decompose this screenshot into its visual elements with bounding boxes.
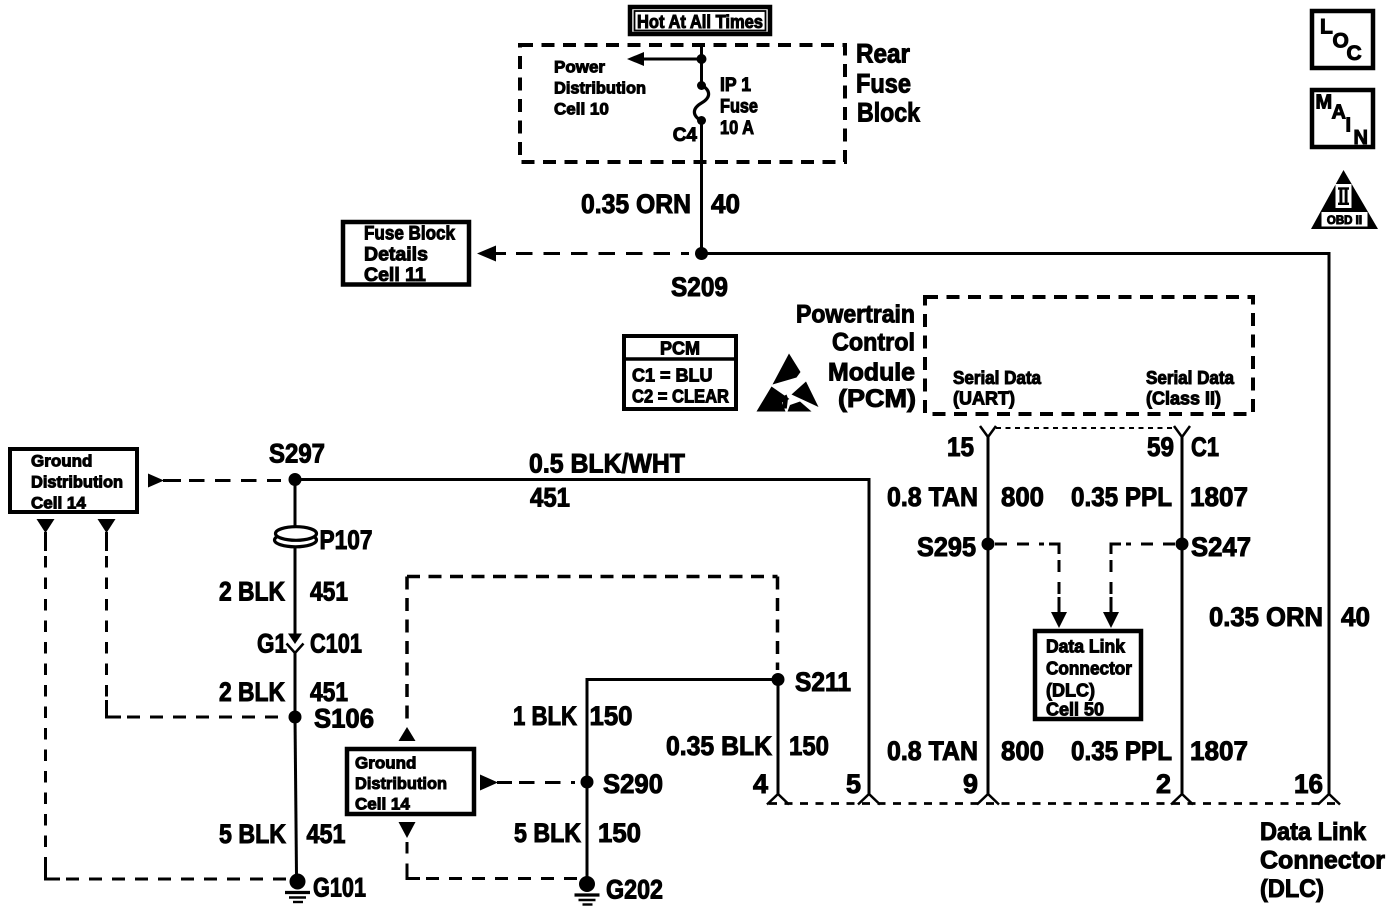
svg-text:Block: Block (857, 98, 921, 128)
svg-text:Control: Control (832, 329, 915, 357)
svg-text:S297: S297 (269, 439, 325, 469)
DLC housing edge (dashed) (769, 802, 1340, 805)
svg-text:2 BLK: 2 BLK (219, 677, 285, 707)
svg-text:40: 40 (711, 189, 740, 219)
svg-text:451: 451 (310, 677, 348, 707)
wire label 0.8 TAN 800 (upper) (887, 482, 1044, 512)
svg-text:150: 150 (590, 701, 633, 731)
svg-text:OBD II: OBD II (1327, 215, 1362, 227)
pin 4 of DLC (753, 769, 789, 805)
wire label 1 BLK 150 (513, 701, 633, 731)
svg-text:5 BLK: 5 BLK (219, 819, 286, 849)
svg-text:9: 9 (963, 769, 978, 799)
net label Serial Data (Class II) (1146, 368, 1235, 409)
wire: 0.8 TAN 800 (UART) (987, 437, 990, 794)
svg-text:Ground: Ground (355, 754, 416, 773)
inline connector G1 / C101 (257, 629, 362, 659)
svg-text:(PCM): (PCM) (838, 385, 916, 413)
svg-text:0.5 BLK/WHT: 0.5 BLK/WHT (529, 449, 685, 479)
icon: ESD-sensitive symbol (757, 354, 819, 412)
svg-text:Distribution: Distribution (355, 774, 447, 793)
svg-text:16: 16 (1294, 769, 1323, 799)
pin 2 of DLC (1156, 769, 1193, 805)
svg-text:150: 150 (598, 818, 641, 848)
wire label 5 BLK 150 (514, 818, 641, 848)
wire label 0.8 TAN 800 (lower) (887, 736, 1044, 766)
wire: S209 to right edge (702, 254, 1330, 795)
svg-text:Connector: Connector (1046, 659, 1132, 679)
svg-text:Serial Data: Serial Data (1146, 368, 1235, 388)
wire: dashed reference arrow to Fuse Block Details (477, 246, 689, 262)
svg-text:0.35 ORN: 0.35 ORN (1209, 602, 1323, 632)
svg-text:(Class II): (Class II) (1146, 389, 1221, 409)
svg-text:2: 2 (1156, 769, 1171, 799)
Rear Fuse Block (dashed box) (520, 45, 845, 162)
svg-text:0.8 TAN: 0.8 TAN (887, 736, 978, 766)
PCM connector edge (fine dashed) (996, 427, 1174, 429)
wire: S297 down (294, 480, 297, 529)
svg-text:4: 4 (753, 769, 768, 799)
power label "Hot At All Times" (630, 7, 770, 34)
net label Serial Data (UART) (953, 368, 1042, 409)
reference: Power Distribution Cell 10 (554, 58, 646, 119)
svg-text:5: 5 (846, 769, 861, 799)
label IP 1 Fuse 10 A (720, 75, 758, 139)
svg-text:S209: S209 (671, 272, 728, 302)
svg-text:Fuse: Fuse (856, 69, 911, 99)
pin 59 of PCM (1147, 426, 1190, 462)
wire: dashed reference S295 to DLC cell box (995, 544, 1067, 628)
svg-text:Cell 11: Cell 11 (364, 264, 426, 286)
splice S297 (269, 439, 325, 487)
svg-text:Connector: Connector (1260, 847, 1385, 875)
svg-text:0.35 PPL: 0.35 PPL (1071, 736, 1172, 766)
svg-text:(UART): (UART) (953, 389, 1015, 409)
reference box: Ground Distribution Cell 14 (left) (10, 449, 137, 513)
svg-text:L: L (1320, 16, 1333, 39)
wire label 0.35 PPL 1807 (lower) (1071, 736, 1248, 766)
svg-text:Module: Module (828, 359, 915, 387)
wire label 0.5 BLK/WHT 451 (529, 449, 685, 513)
pin 15 of PCM (947, 426, 996, 462)
svg-text:C101: C101 (310, 629, 362, 659)
wire: dashed reference S247 to DLC cell box (1103, 544, 1175, 628)
svg-text:Hot At All Times: Hot At All Times (637, 12, 763, 32)
svg-text:Cell 14: Cell 14 (31, 494, 86, 513)
svg-text:451: 451 (530, 483, 570, 513)
svg-text:2 BLK: 2 BLK (219, 577, 285, 607)
connector P107 (grommet) (275, 525, 373, 555)
splice S247 (1176, 532, 1252, 562)
splice S211 (772, 667, 852, 697)
splice S209 (695, 247, 708, 260)
svg-text:0.35 ORN: 0.35 ORN (581, 189, 691, 219)
ground G101 (285, 873, 366, 903)
pin 16 of DLC (1294, 769, 1340, 805)
wire: 0.35 PPL 1807 (Class II) (1181, 437, 1184, 794)
wire label 0.35 ORN / 40 (581, 189, 740, 219)
wire: S297 to DLC pin 5 (295, 480, 869, 795)
wire label 5 BLK 451 (219, 819, 346, 849)
PCM module (dashed box) (925, 297, 1253, 414)
svg-text:1 BLK: 1 BLK (513, 701, 577, 731)
svg-text:Cell 14: Cell 14 (355, 795, 410, 814)
wire: S211 to DLC pin 4 (777, 680, 780, 795)
wire label 2 BLK 451 (lower) (219, 677, 348, 707)
wire: dashed reference from middle box down to G202 (399, 822, 579, 879)
wire: dashed reference arrow from middle box to S290 (480, 775, 575, 791)
svg-text:Serial Data: Serial Data (953, 368, 1042, 388)
wire label 0.35 ORN 40 (right side) (1209, 602, 1370, 632)
svg-text:S211: S211 (795, 667, 851, 697)
wire: dashed reference from left box down to S106 (98, 519, 283, 717)
splice S295 (917, 532, 995, 562)
splice S290 (581, 769, 664, 799)
svg-text:800: 800 (1001, 736, 1044, 766)
wire: dashed reference from left box down to G101 (37, 519, 289, 879)
label Rear Fuse Block (856, 39, 921, 128)
svg-text:Fuse: Fuse (720, 97, 758, 118)
wire: fuse down to S209 (700, 121, 703, 254)
wire: S211 branch down to S290 and G202 (587, 680, 778, 885)
svg-text:0.8 TAN: 0.8 TAN (887, 482, 978, 512)
svg-text:Ground: Ground (31, 452, 92, 471)
svg-text:S295: S295 (917, 532, 976, 562)
wire: arrow to Power Distribution (627, 52, 702, 66)
splice S106 (289, 704, 375, 734)
svg-text:N: N (1354, 127, 1368, 149)
wire: top stub into fuse (700, 45, 703, 85)
svg-text:59: 59 (1147, 432, 1174, 462)
svg-text:Powertrain: Powertrain (796, 301, 915, 329)
icon OBD II triangle (1311, 170, 1378, 229)
svg-text:C: C (1347, 42, 1362, 65)
label Powertrain Control Module (PCM) (796, 301, 916, 414)
svg-text:150: 150 (789, 731, 829, 761)
dashed box around middle ground path (407, 577, 778, 724)
wire label 2 BLK 451 (upper) (219, 577, 348, 607)
icon MAIN (1312, 90, 1373, 149)
svg-text:C4: C4 (673, 125, 698, 146)
svg-text:PCM: PCM (660, 339, 700, 359)
svg-text:Distribution: Distribution (31, 473, 123, 492)
svg-text:I: I (1346, 115, 1352, 137)
label Data Link Connector (DLC) (1260, 818, 1385, 903)
svg-text:S290: S290 (603, 769, 663, 799)
wire label 0.35 BLK 150 (666, 731, 829, 761)
svg-text:15: 15 (947, 432, 974, 462)
wire: P107 to C101 (294, 546, 297, 634)
pin 5 of DLC (846, 769, 880, 805)
pin 9 of DLC (963, 769, 999, 805)
svg-text:Cell 10: Cell 10 (554, 100, 609, 119)
svg-text:C1 = BLU: C1 = BLU (632, 366, 713, 386)
svg-text:C2 = CLEAR: C2 = CLEAR (632, 387, 729, 407)
svg-text:S247: S247 (1191, 532, 1251, 562)
svg-text:Details: Details (364, 244, 428, 266)
svg-text:(DLC): (DLC) (1046, 681, 1095, 701)
svg-text:IP 1: IP 1 (720, 75, 751, 96)
svg-text:P107: P107 (320, 525, 373, 555)
svg-text:G202: G202 (606, 875, 663, 905)
legend box PCM: C1=BLU C2=CLEAR (624, 336, 736, 409)
icon LOC (1312, 11, 1373, 68)
wire: C101 to S106 (294, 653, 297, 717)
fuse IP 1 Fuse 10 A (694, 81, 708, 125)
svg-text:40: 40 (1341, 602, 1370, 632)
svg-text:Data Link: Data Link (1046, 637, 1126, 657)
reference box: Ground Distribution Cell 14 (middle) (347, 727, 474, 814)
svg-text:Distribution: Distribution (554, 79, 646, 98)
wire label 0.35 PPL 1807 (upper) (1071, 482, 1248, 512)
svg-text:G101: G101 (313, 873, 366, 903)
svg-text:Data Link: Data Link (1260, 818, 1366, 846)
reference box: Fuse Block Details Cell 11 (343, 222, 469, 286)
svg-text:0.35 PPL: 0.35 PPL (1071, 482, 1172, 512)
svg-text:M: M (1316, 92, 1333, 114)
svg-text:451: 451 (307, 819, 346, 849)
svg-text:Cell 50: Cell 50 (1046, 700, 1104, 720)
svg-text:10 A: 10 A (720, 118, 754, 139)
svg-text:Power: Power (554, 58, 605, 77)
wire: S106 to G101 (295, 717, 297, 875)
reference box: Data Link Connector (DLC) Cell 50 (1035, 631, 1141, 720)
node: junction dot above fuse (697, 54, 707, 64)
svg-text:800: 800 (1001, 482, 1044, 512)
svg-text:5 BLK: 5 BLK (514, 818, 581, 848)
svg-text:G1: G1 (257, 629, 287, 659)
svg-text:C1: C1 (1191, 432, 1219, 462)
svg-text:Rear: Rear (856, 39, 910, 69)
svg-text:Fuse Block: Fuse Block (364, 223, 455, 245)
svg-text:A: A (1332, 102, 1346, 124)
svg-text:0.35 BLK: 0.35 BLK (666, 731, 772, 761)
svg-text:(DLC): (DLC) (1260, 875, 1324, 903)
svg-text:1807: 1807 (1190, 482, 1248, 512)
svg-text:451: 451 (310, 577, 348, 607)
svg-text:1807: 1807 (1190, 736, 1248, 766)
wire: dashed reference arrow from left box to S297 (148, 474, 281, 488)
ground G202 (575, 875, 664, 905)
svg-text:S106: S106 (314, 704, 374, 734)
